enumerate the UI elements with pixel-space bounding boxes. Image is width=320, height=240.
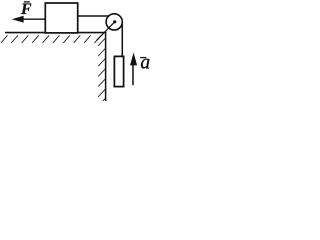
force F arrow shaft <box>23 18 46 20</box>
pulley wheel <box>106 14 122 30</box>
table right vertical edge <box>105 32 107 101</box>
force F arrowhead <box>12 16 24 23</box>
rope from pulley down to hanging block <box>121 22 123 57</box>
pulley support bracket <box>97 22 115 41</box>
hatching under table surface <box>1 35 101 43</box>
rope from block to pulley <box>78 15 109 17</box>
block M on table <box>45 3 77 33</box>
acceleration a arrow shaft <box>132 64 134 86</box>
table top surface line <box>5 32 106 34</box>
background <box>0 0 150 101</box>
hanging block m <box>114 56 123 86</box>
svg-text:a: a <box>140 53 150 74</box>
svg-text:F: F <box>20 1 32 18</box>
bar over F <box>24 1 30 3</box>
acceleration a arrowhead <box>130 53 137 66</box>
pulley axle dot <box>113 20 116 23</box>
hatching on table right edge wall <box>98 38 105 106</box>
bar over a <box>140 57 146 59</box>
